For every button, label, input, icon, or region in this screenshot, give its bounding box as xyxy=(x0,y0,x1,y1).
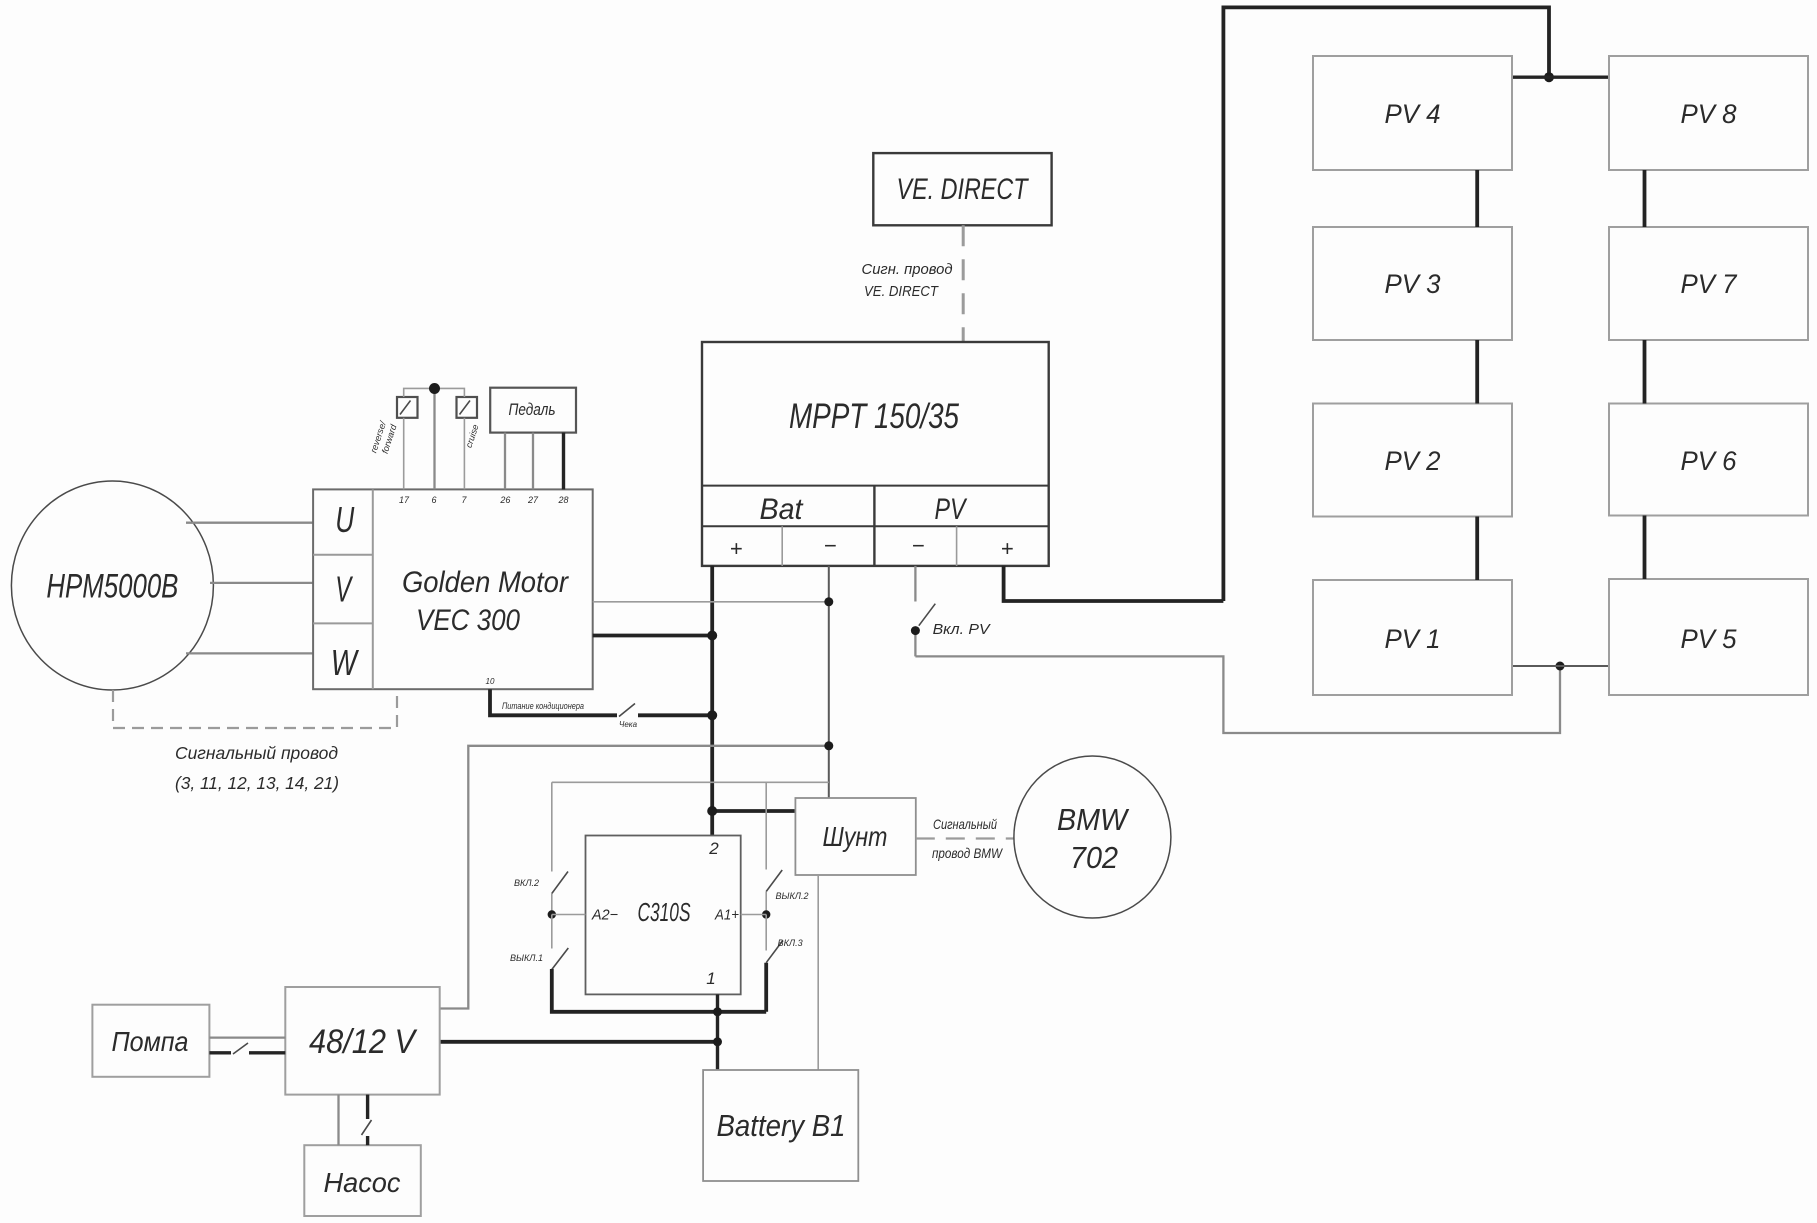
svg-text:(3, 11, 12, 13, 14, 21): (3, 11, 12, 13, 14, 21) xyxy=(175,773,339,793)
svg-text:Педаль: Педаль xyxy=(509,400,556,419)
wire PV- return path xyxy=(915,656,1560,733)
svg-text:PV: PV xyxy=(935,493,968,526)
converter 48/12V xyxy=(285,987,439,1095)
BMW 702 monitor xyxy=(1014,756,1171,918)
svg-text:48/12 V: 48/12 V xyxy=(309,1023,418,1061)
pedal box xyxy=(490,388,576,433)
wire pin10 air conditioner feed xyxy=(490,689,712,715)
pump Pompa xyxy=(92,1005,209,1077)
wire PV- with switch Vkl PV xyxy=(915,566,935,657)
label VKL3 xyxy=(778,938,803,948)
pin 28 label xyxy=(557,495,568,505)
solar panel PV1 xyxy=(1313,580,1512,695)
svg-text:PV 5: PV 5 xyxy=(1681,624,1738,654)
node junction switches xyxy=(429,383,440,394)
wire PV+ trunk xyxy=(1004,7,1549,601)
node Bat- junction 2 xyxy=(824,741,833,750)
svg-text:PV 3: PV 3 xyxy=(1385,269,1441,299)
label kill switch xyxy=(619,720,638,729)
svg-text:A2−: A2− xyxy=(591,907,618,924)
controller U1 Golden Motor VEC 300 xyxy=(313,489,593,689)
svg-text:ВКЛ.2: ВКЛ.2 xyxy=(514,878,539,888)
wire shunt feed xyxy=(712,809,795,813)
svg-text:2: 2 xyxy=(708,839,719,858)
wire PV2-PV1 link xyxy=(1475,517,1479,581)
contactor C310S xyxy=(586,836,741,995)
svg-text:Питание кондиционера: Питание кондиционера xyxy=(502,701,584,711)
pin 26 label xyxy=(499,495,510,505)
node B+ junction xyxy=(707,631,717,641)
svg-text:6: 6 xyxy=(431,495,436,505)
solar panel PV3 xyxy=(1313,227,1512,340)
wire pin27 xyxy=(532,433,534,490)
solar panel PV4 xyxy=(1313,56,1512,170)
pin 17 label xyxy=(399,495,410,505)
wire controller B+ xyxy=(593,634,713,638)
battery B1 xyxy=(703,1070,858,1181)
VE.DIRECT box xyxy=(873,153,1051,225)
solar panel PV7 xyxy=(1609,227,1808,340)
svg-text:−: − xyxy=(912,533,925,558)
wire PV7-PV6 link xyxy=(1643,340,1647,404)
label Vkl PV xyxy=(933,621,992,638)
wire PV3-PV2 link xyxy=(1475,340,1479,404)
svg-text:Чека: Чека xyxy=(619,720,638,729)
svg-text:W: W xyxy=(331,642,359,683)
wire pompa top xyxy=(209,1036,285,1038)
wire PV4-PV8 link xyxy=(1512,75,1609,78)
label VKL2 xyxy=(514,878,539,888)
label VE.DIRECT wire line2 xyxy=(864,283,940,300)
label VE.DIRECT wire line1 xyxy=(862,261,953,278)
wire PV8-PV7 link xyxy=(1643,170,1647,227)
wire U phase xyxy=(186,522,313,524)
svg-text:+: + xyxy=(1001,536,1014,561)
svg-text:+: + xyxy=(730,536,743,561)
svg-text:U: U xyxy=(335,499,355,540)
wire coil top link xyxy=(552,781,829,783)
svg-text:1: 1 xyxy=(706,969,715,988)
wire 48/12V main feed xyxy=(440,1040,718,1044)
svg-text:PV 8: PV 8 xyxy=(1681,99,1737,129)
wire pin1 battery xyxy=(716,994,719,1070)
svg-text:ВЫКЛ.2: ВЫКЛ.2 xyxy=(776,891,809,901)
node PV string negative xyxy=(1556,662,1565,671)
svg-text:HPM5000B: HPM5000B xyxy=(46,568,178,606)
node A1+ xyxy=(741,910,771,918)
node PV string positive xyxy=(1544,72,1554,82)
svg-text:Вкл. PV: Вкл. PV xyxy=(933,621,992,638)
wire 48/12V sense loop xyxy=(440,746,829,1009)
svg-text:C310S: C310S xyxy=(638,897,691,927)
node feed junction xyxy=(713,1037,722,1046)
switch air conditioner xyxy=(619,704,635,717)
svg-text:VE. DIRECT: VE. DIRECT xyxy=(864,283,940,300)
switch VKL2 xyxy=(552,782,568,914)
svg-text:27: 27 xyxy=(527,495,539,505)
svg-text:ВЫКЛ.1: ВЫКЛ.1 xyxy=(510,953,543,963)
wire controller signal to Bat- xyxy=(593,601,829,603)
svg-text:BMW: BMW xyxy=(1057,802,1130,837)
wire shunt to battery xyxy=(817,875,819,1070)
svg-text:MPPT 150/35: MPPT 150/35 xyxy=(789,397,959,436)
svg-text:Сигнальный: Сигнальный xyxy=(933,816,997,832)
svg-text:Сигн. провод: Сигн. провод xyxy=(862,261,953,278)
node A2- xyxy=(548,910,586,918)
wire PV1-PV5 link xyxy=(1512,665,1609,667)
svg-text:Golden Motor: Golden Motor xyxy=(402,566,569,599)
wire pin6 xyxy=(433,388,435,489)
node pin1 junction xyxy=(713,1007,722,1016)
dashed VE.DIRECT signal wire xyxy=(962,225,965,342)
svg-text:Bat: Bat xyxy=(760,493,805,526)
wire nasos left xyxy=(337,1095,339,1146)
wire PV6-PV5 link xyxy=(1643,516,1647,580)
switch S2 cruise xyxy=(457,397,478,418)
wire pin28 xyxy=(562,433,565,490)
solar panel PV8 xyxy=(1609,56,1808,170)
svg-text:провод BMW: провод BMW xyxy=(932,845,1003,861)
shunt box xyxy=(795,798,915,875)
wire nasos right with switch xyxy=(362,1095,372,1146)
wire Bat- vertical xyxy=(828,566,830,798)
svg-text:Сигнальный провод: Сигнальный провод xyxy=(175,743,338,763)
node Bat- junction 1 xyxy=(824,597,833,606)
pin 10 label xyxy=(486,677,495,686)
wire pin7 xyxy=(435,388,465,489)
pump Nasos xyxy=(304,1145,421,1216)
svg-text:PV 6: PV 6 xyxy=(1681,446,1738,476)
svg-text:PV 1: PV 1 xyxy=(1385,624,1441,654)
svg-text:−: − xyxy=(824,533,837,558)
svg-text:26: 26 xyxy=(499,495,510,505)
wire W phase xyxy=(186,652,313,654)
switch VYKL1 xyxy=(552,915,766,1012)
MPPT 150/35 charge controller xyxy=(702,342,1049,566)
wire Bat+ trunk xyxy=(710,566,714,836)
node air conditioner junction xyxy=(707,710,717,720)
wire pin17 xyxy=(404,388,435,489)
switch VYKL2 xyxy=(766,782,782,914)
pin 27 label xyxy=(527,495,539,505)
svg-text:Помпа: Помпа xyxy=(112,1026,189,1057)
svg-text:702: 702 xyxy=(1070,840,1118,875)
svg-text:28: 28 xyxy=(557,495,568,505)
label signal wire line2 xyxy=(175,773,339,793)
wire pompa bottom with switch xyxy=(209,1043,285,1054)
svg-text:PV 7: PV 7 xyxy=(1681,269,1738,299)
wire V phase xyxy=(210,582,313,584)
node Vkl PV xyxy=(911,626,920,635)
svg-text:Battery B1: Battery B1 xyxy=(717,1108,846,1143)
svg-text:17: 17 xyxy=(399,495,410,505)
wire pin26 xyxy=(504,433,506,490)
solar panel PV6 xyxy=(1609,404,1808,516)
label signal wire line1 xyxy=(175,743,338,763)
svg-text:PV 4: PV 4 xyxy=(1385,99,1441,129)
label cruise xyxy=(464,423,481,449)
node shunt feed junction xyxy=(707,806,717,816)
svg-text:V: V xyxy=(335,569,353,610)
solar panel PV2 xyxy=(1313,404,1512,517)
label reverse/forward xyxy=(368,419,398,455)
label BMW wire line2 xyxy=(932,845,1003,861)
wire PV4-PV3 link xyxy=(1475,170,1479,227)
svg-text:Насос: Насос xyxy=(324,1167,401,1198)
label VYKL2 xyxy=(776,891,809,901)
motor HPM5000B xyxy=(11,481,213,690)
switch VKL3 xyxy=(766,915,782,1012)
svg-text:VE. DIRECT: VE. DIRECT xyxy=(897,173,1030,206)
svg-text:VEC 300: VEC 300 xyxy=(416,604,520,637)
dashed motor signal wire xyxy=(113,689,397,728)
pin 7 label xyxy=(461,495,467,505)
label BMW wire line1 xyxy=(933,816,997,832)
svg-text:PV 2: PV 2 xyxy=(1385,446,1441,476)
svg-text:ВКЛ.3: ВКЛ.3 xyxy=(778,938,803,948)
svg-text:10: 10 xyxy=(486,677,495,686)
solar panel PV5 xyxy=(1609,579,1808,695)
svg-text:A1+: A1+ xyxy=(714,907,739,924)
dashed BMW signal wire xyxy=(916,837,1014,839)
label VYKL1 xyxy=(510,953,543,963)
switch S1 reverse/forward xyxy=(397,397,418,418)
label air conditioner xyxy=(502,701,584,711)
svg-text:Шунт: Шунт xyxy=(823,821,888,852)
pin 6 label xyxy=(431,495,436,505)
